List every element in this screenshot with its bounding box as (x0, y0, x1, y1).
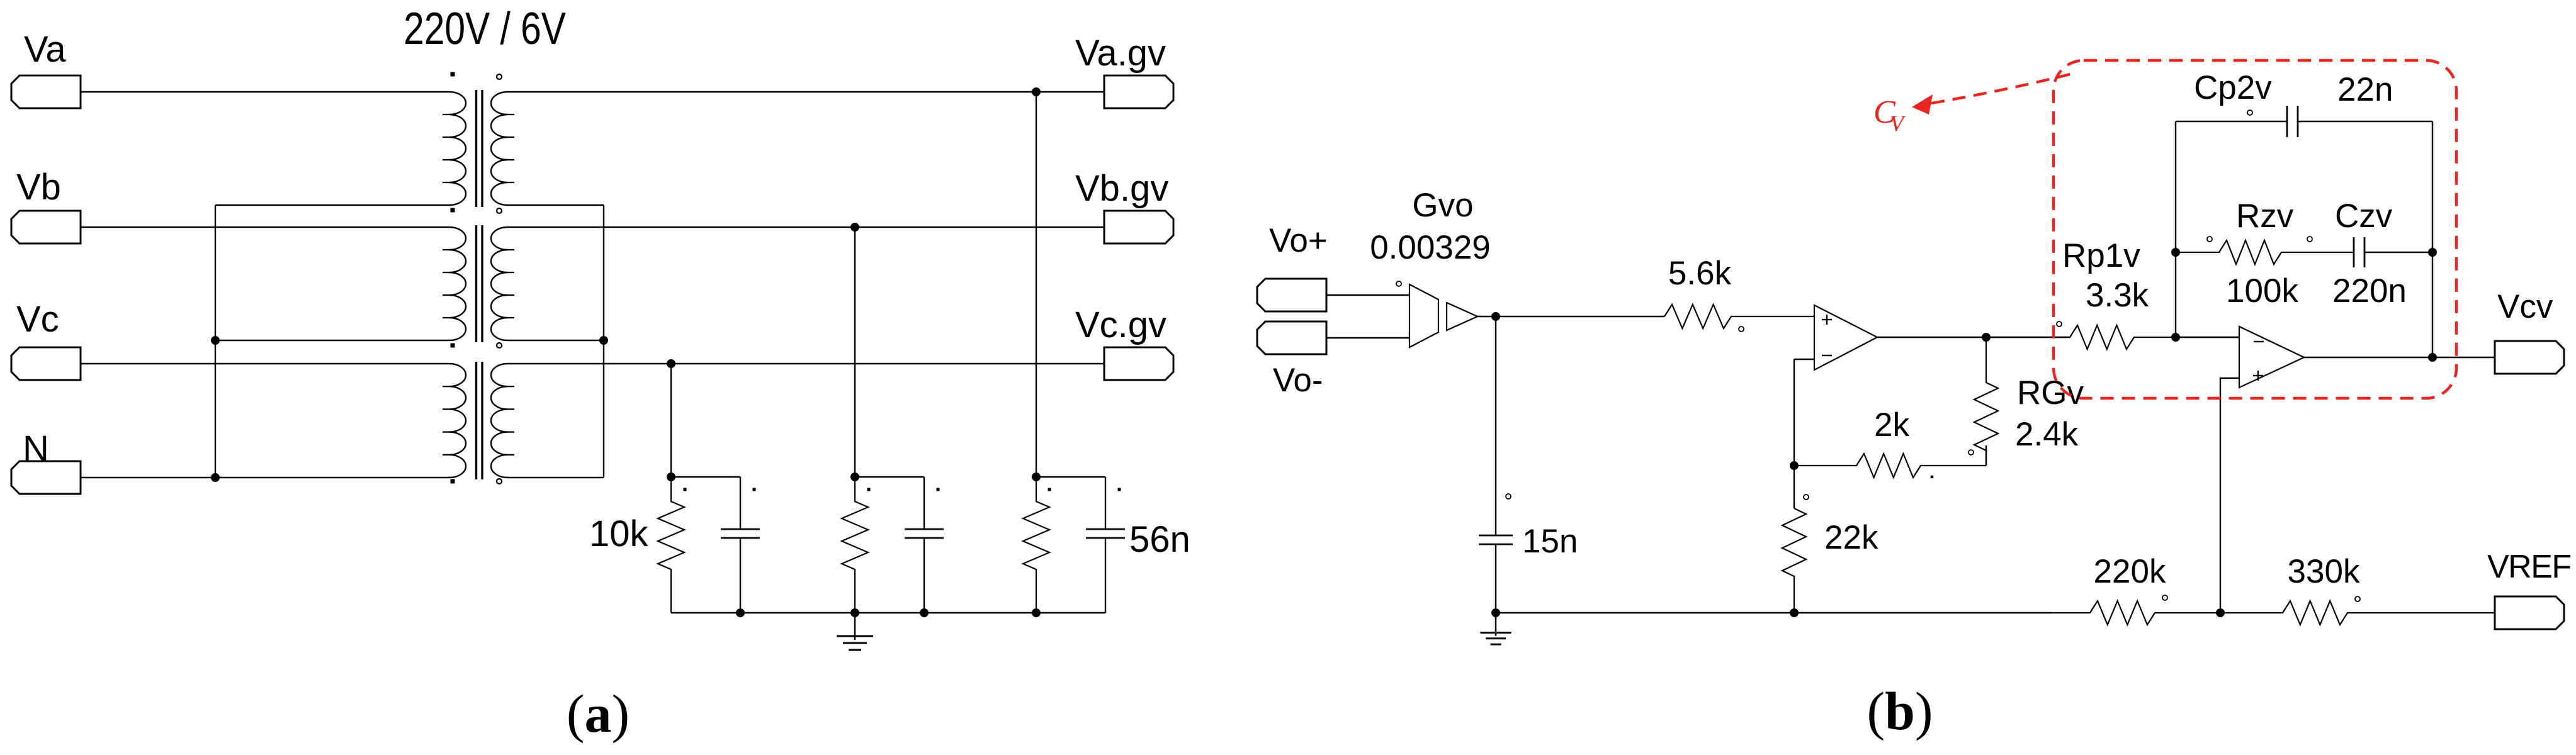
svg-text:(a): (a) (567, 683, 630, 744)
op-amp U2 plus sign (2253, 375, 2263, 376)
wire E1 output (1477, 316, 1664, 317)
svg-text:220V / 6V: 220V / 6V (404, 3, 566, 53)
pin mark Czv (2307, 237, 2312, 242)
wire Vb port to T2 primary top (81, 226, 449, 228)
port Va (11, 75, 81, 108)
junction bottom rail at 22k (1790, 608, 1799, 617)
wire T2 primary bottom (215, 340, 449, 341)
wire Vc.gv net (507, 363, 1104, 364)
pin mark C15n (1506, 494, 1511, 499)
port Vc.gv (1104, 347, 1173, 380)
svg-text:Rzv: Rzv (2236, 198, 2294, 235)
svg-text:10k: 10k (589, 513, 649, 554)
capacitor Cp2v 22n (2286, 121, 2288, 122)
transformer T1 secondary winding (491, 92, 507, 205)
pin mark R330k (2355, 596, 2360, 601)
pin marks RC group1 (684, 488, 687, 491)
svg-text:330k: 330k (2288, 553, 2360, 590)
pin mark RGv (1969, 450, 1974, 455)
svg-text:N: N (23, 428, 49, 469)
pin mark Rzv (2207, 237, 2212, 242)
junction compensation left at Rzv (2171, 248, 2180, 257)
svg-text:VREF: VREF (2487, 549, 2571, 585)
pin mark R5.6k (1739, 327, 1744, 332)
resistor RGv 2.4k (1974, 337, 1998, 466)
port VREF (2495, 596, 2564, 629)
svg-text:Va.gv: Va.gv (1075, 33, 1166, 74)
svg-text:22k: 22k (1824, 519, 1878, 556)
junction E1 output (1491, 312, 1500, 321)
junction right rail at Czv (2428, 248, 2437, 257)
svg-text:Vc: Vc (16, 299, 59, 340)
wire Vc port to T3 primary top (81, 363, 449, 364)
junction bottom rail at Cf1 (736, 608, 745, 617)
junction bottom rail at U2 plus (2216, 608, 2225, 617)
wire primary common vertical (215, 205, 216, 478)
resistor R1 10k (658, 477, 684, 613)
wire U2 noninverting input (2220, 378, 2239, 613)
red arrowhead (1912, 94, 1933, 115)
resistor R3 (1023, 477, 1049, 613)
transformer T1 core (475, 90, 477, 207)
svg-text:Rp1v: Rp1v (2062, 237, 2140, 274)
op-amp U1 body (1814, 305, 1877, 370)
svg-text:Gvo: Gvo (1412, 187, 1473, 224)
pin marks RC group2 (867, 488, 871, 491)
wire U1 feedback vertical (1794, 359, 1795, 508)
wire T3 secondary bottom (507, 477, 604, 478)
svg-text:Czv: Czv (2335, 198, 2393, 235)
wire RC group3 top bar (1036, 476, 1105, 478)
wire RC group1 top bar (671, 476, 740, 478)
wire Vb.gv net (507, 226, 1104, 228)
transformer T3 primary winding (449, 364, 466, 478)
junction U1 feedback at 2k (1790, 461, 1799, 470)
junction primary common at N (211, 473, 220, 482)
resistor R22k 22k (1782, 508, 1806, 613)
port Vb (11, 211, 81, 243)
port Vc (11, 347, 81, 380)
red dashed leader line (1931, 74, 2072, 103)
wire T1 primary bottom (215, 204, 449, 206)
svg-text:0.00329: 0.00329 (1370, 229, 1491, 266)
svg-text:Vc.gv: Vc.gv (1075, 305, 1167, 345)
wire bottom rail figure b (1496, 612, 2052, 613)
transformer T2 phase marks top (451, 208, 455, 213)
resistor R2k (1794, 454, 1986, 478)
svg-text:22n: 22n (2337, 71, 2393, 108)
svg-text:220k: 220k (2094, 553, 2166, 590)
wire U2 output (2304, 357, 2495, 358)
pin mark E1 (1396, 281, 1401, 286)
junction Vc.gv column (667, 359, 675, 368)
port Vo+ (1257, 279, 1326, 311)
wire RGv bottom lead (1986, 445, 1987, 466)
svg-text:3.3k: 3.3k (2086, 277, 2149, 314)
transformer T3 core (475, 362, 477, 479)
capacitor Cf1 (740, 477, 741, 529)
junction bottom rail at C15n (1491, 608, 1500, 617)
transformer T2 secondary winding (491, 227, 507, 340)
dependent source E1 Gvo body (1409, 284, 1438, 347)
red dashed box Cv compensation network (2053, 60, 2456, 398)
capacitor Cf3 56n (1105, 477, 1106, 529)
wire Cp2v top left (2176, 121, 2287, 122)
wire Vo+ to E source (1326, 294, 1409, 296)
capacitor C15n 15n (1495, 535, 1496, 536)
dependent source E1 Gvo output triangle (1447, 303, 1477, 330)
wire Va.gv net (507, 91, 1104, 92)
port Vo- (1257, 322, 1326, 354)
svg-text:2.4k: 2.4k (2015, 416, 2079, 453)
junction Rp1v to compensation (2171, 333, 2180, 342)
op-amp U1 minus sign (1822, 355, 1832, 356)
wire down to C15n (1495, 316, 1496, 535)
svg-text:Va: Va (24, 29, 66, 70)
junction secondary common at T2 (599, 336, 608, 345)
port Vb.gv (1104, 211, 1173, 243)
wire U2 inverting input (2176, 337, 2239, 338)
wire Vb.gv drop to RC group 2 (854, 227, 856, 477)
resistor R330k (2220, 601, 2495, 625)
op-amp U2 minus sign (2254, 341, 2264, 342)
op-amp U2 body (2239, 327, 2304, 388)
port Vcv (2495, 341, 2564, 374)
junction bottom rail at Cf2 (920, 608, 929, 617)
wire compensation right vertical (2432, 121, 2433, 357)
capacitor Cf2 (924, 477, 925, 529)
svg-text:RGv: RGv (2017, 374, 2084, 411)
svg-text:Vb: Vb (16, 167, 61, 208)
pin mark R2k (1931, 476, 1934, 479)
resistor Rp1v 3.3k (1986, 325, 2239, 349)
svg-text:Cp2v: Cp2v (2194, 69, 2272, 106)
junction bottom rail at R3 (1032, 608, 1041, 617)
wire N port to T3 primary bottom (81, 477, 449, 478)
pin mark R220k (2162, 595, 2167, 600)
wire Va port to T1 primary top (81, 91, 449, 92)
junction primary common at T2 (211, 336, 220, 345)
svg-text:100k: 100k (2226, 272, 2298, 310)
wire U1 output (1877, 337, 2070, 338)
svg-text:15n: 15n (1522, 523, 1578, 560)
capacitor Czv 220n (2353, 252, 2354, 253)
resistor R5.6k (1664, 305, 1814, 328)
transformer T2 primary winding (449, 227, 466, 340)
junction RC group1 top (667, 473, 675, 481)
ground symbol figure a (854, 613, 856, 640)
svg-text:5.6k: 5.6k (1668, 255, 1732, 292)
junction right rail at output (2428, 353, 2437, 362)
transformer T3 secondary winding (491, 364, 507, 478)
wire Va.gv drop to RC group 3 (1036, 92, 1037, 477)
op-amp U1 plus sign (1822, 319, 1832, 320)
pin mark R22k (1804, 495, 1809, 500)
junction RC group3 top (1032, 473, 1041, 481)
transformer T3 phase marks top (451, 344, 455, 348)
wire Vo- to E source (1326, 337, 1409, 338)
svg-text:220n: 220n (2332, 272, 2407, 310)
port Va.gv (1104, 75, 1173, 108)
transformer T3 phase marks bottom (451, 479, 455, 484)
wire Vc.gv drop to RC group 1 (670, 364, 672, 477)
wire RC group2 top bar (855, 476, 924, 478)
transformer T1 phase marks top (451, 72, 455, 77)
pin mark Cp2v (2247, 110, 2252, 115)
svg-text:56n: 56n (1129, 519, 1190, 560)
svg-text:2k: 2k (1874, 406, 1909, 444)
junction RC group2 top (850, 473, 859, 481)
svg-text:Vb.gv: Vb.gv (1075, 168, 1168, 209)
transformer T2 core (475, 225, 477, 342)
resistor R2 (842, 477, 868, 613)
pin mark Rp1v (2057, 322, 2062, 327)
pin marks RC group3 (1048, 488, 1051, 491)
resistor R220k (2052, 601, 2220, 625)
wire secondary common vertical (603, 205, 604, 478)
junction Va.gv column (1032, 87, 1041, 96)
resistor Rzv 100k (2176, 240, 2354, 264)
port N (11, 461, 81, 494)
junction bottom rail at R2 (850, 608, 859, 617)
svg-text:Vo+: Vo+ (1269, 222, 1328, 259)
svg-text:Vcv: Vcv (2497, 288, 2553, 325)
wire U1 inverting input (1794, 359, 1814, 360)
transformer T1 primary winding (449, 92, 466, 205)
junction Vb.gv column (850, 223, 859, 232)
junction U1 output RGv (1982, 333, 1991, 342)
wire compensation left vertical (2175, 121, 2176, 337)
ground symbol figure b (1495, 613, 1496, 636)
wire RC bottom rail (671, 612, 1105, 613)
svg-text:Vo-: Vo- (1273, 362, 1323, 399)
svg-text:(b): (b) (1867, 681, 1933, 741)
wire T2 secondary bottom (507, 340, 604, 341)
wire T1 secondary bottom (507, 204, 604, 206)
